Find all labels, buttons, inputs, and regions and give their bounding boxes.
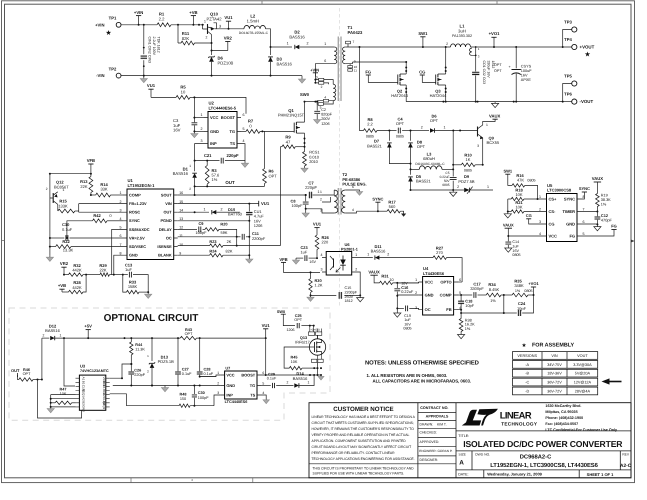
svg-text:FOR ASSEMBLY: FOR ASSEMBLY xyxy=(532,343,575,349)
svg-text:TIMER: TIMER xyxy=(563,209,576,214)
svg-text:1: 1 xyxy=(486,123,488,127)
svg-text:1%: 1% xyxy=(601,202,607,206)
svg-text:-B: -B xyxy=(525,372,529,376)
svg-text:C26: C26 xyxy=(134,368,141,372)
svg-text:NOTES: UNLESS OTHERWISE SPECI: NOTES: UNLESS OTHERWISE SPECIFIED xyxy=(365,359,479,366)
svg-text:3uH: 3uH xyxy=(458,28,466,33)
size/dwg/rev row dividers xyxy=(472,451,620,478)
svg-text:2: 2 xyxy=(46,187,48,191)
svg-text:Fax: (408)434-0507: Fax: (408)434-0507 xyxy=(545,422,578,426)
svg-text:VU1: VU1 xyxy=(147,83,156,88)
svg-text:R31: R31 xyxy=(381,274,389,279)
T1 secondary winding (pin 7) xyxy=(343,47,346,64)
svg-text:820pF: 820pF xyxy=(321,113,332,117)
svg-text:BAS521: BAS521 xyxy=(367,143,382,148)
ground at C8 xyxy=(305,211,307,213)
wire U4 FB row xyxy=(457,310,504,313)
svg-text:100pF: 100pF xyxy=(198,396,209,400)
title block right rows xyxy=(456,431,631,470)
svg-text:2.2: 2.2 xyxy=(367,122,373,127)
diode D7 BAS521 xyxy=(388,131,390,141)
svg-text:APPROVALS: APPROVALS xyxy=(426,415,449,419)
svg-text:4: 4 xyxy=(321,253,323,257)
svg-text:47K: 47K xyxy=(517,178,524,183)
net flag VU1 at VIN xyxy=(258,201,260,207)
svg-text:SIZE: SIZE xyxy=(459,452,467,456)
svg-text:11: 11 xyxy=(179,234,183,238)
op-amp U2 LTC4440ES6-5 box xyxy=(208,112,237,149)
svg-text:28V@4A: 28V@4A xyxy=(575,389,591,393)
wire U7 VCC row xyxy=(200,375,221,377)
test point TP4 (+VOUT) xyxy=(572,44,577,49)
svg-text:0.1uF: 0.1uF xyxy=(182,372,192,376)
svg-text:BOOST: BOOST xyxy=(241,372,255,377)
svg-text:TDK 1812: TDK 1812 xyxy=(157,37,161,53)
ground (open) at R21 xyxy=(507,212,509,214)
svg-text:BLANK: BLANK xyxy=(158,253,172,258)
svg-text:OPT: OPT xyxy=(294,318,302,322)
svg-text:SYNC: SYNC xyxy=(129,218,140,223)
resistor R6 OPT xyxy=(263,169,267,184)
svg-text:1: 1 xyxy=(355,253,357,257)
svg-text:158K: 158K xyxy=(128,284,138,289)
secondary controller U5 LTC3900CS8 box xyxy=(547,194,578,242)
gate driver U7 LTC4440ES6 box xyxy=(225,371,257,399)
svg-text:5V@20A: 5V@20A xyxy=(575,372,591,376)
svg-text:2: 2 xyxy=(189,187,191,191)
wire R1 to Q10 node xyxy=(171,24,204,26)
isolation barrier dashed line xyxy=(339,8,341,308)
wire T1 gnd column to T2 xyxy=(359,130,361,132)
ground at T2 secondary top xyxy=(357,190,360,192)
resistor R3 57.6 1% xyxy=(205,166,209,185)
ground (open) at C16 xyxy=(394,313,401,317)
svg-text:THIS CIRCUIT IS PROPRIETARY TO: THIS CIRCUIT IS PROPRIETARY TO LINEAR TE… xyxy=(313,466,415,470)
capacitor C3 1uF 16V xyxy=(193,97,195,122)
svg-text:ISENSE: ISENSE xyxy=(157,244,172,249)
svg-text:220: 220 xyxy=(322,240,329,245)
svg-text:2: 2 xyxy=(321,85,323,89)
wire VU1 column down to BOOST xyxy=(265,338,267,375)
svg-text:FG: FG xyxy=(611,224,617,229)
test point TP3 xyxy=(572,27,577,32)
svg-text:2: 2 xyxy=(120,200,122,204)
svg-text:VOUT: VOUT xyxy=(577,354,588,358)
svg-text:4: 4 xyxy=(539,232,541,236)
svg-text:CSYS: CSYS xyxy=(521,65,532,69)
svg-text:OPT: OPT xyxy=(396,121,405,126)
svg-text:4: 4 xyxy=(243,139,245,143)
svg-text:1: 1 xyxy=(324,42,326,46)
svg-text:CUSTOMER NOTICE: CUSTOMER NOTICE xyxy=(333,406,393,413)
svg-text:10K: 10K xyxy=(515,192,522,197)
wire T1 top node down to R8 xyxy=(360,47,364,131)
svg-text:CO1 CO2 CO3: CO1 CO2 CO3 xyxy=(482,61,486,85)
capacitor C27 0.1uF xyxy=(177,338,179,371)
svg-text:SUPPLIED FOR USE WITH LINEAR T: SUPPLIED FOR USE WITH LINEAR TECHNOLOGY … xyxy=(313,472,405,476)
svg-text:3: 3 xyxy=(316,75,318,79)
svg-text:+5V: +5V xyxy=(84,324,92,329)
svg-text:3: 3 xyxy=(219,24,221,28)
wire VU1 node to BOOST xyxy=(194,97,246,113)
svg-text:SYNC: SYNC xyxy=(564,197,575,202)
svg-text:GND: GND xyxy=(210,129,219,134)
svg-text:VU1: VU1 xyxy=(261,201,270,206)
svg-text:R48: R48 xyxy=(180,393,187,397)
svg-text:U6: U6 xyxy=(345,242,351,247)
svg-text:TP1: TP1 xyxy=(109,16,117,21)
resistor R26 220 xyxy=(315,235,319,250)
ground (open) at C5/D9 row xyxy=(452,190,454,192)
svg-text:CG: CG xyxy=(419,69,425,74)
svg-text:OC: OC xyxy=(425,307,431,312)
svg-text:OPT: OPT xyxy=(185,332,193,336)
svg-text:22K: 22K xyxy=(80,184,87,189)
svg-text:R45: R45 xyxy=(291,356,298,360)
svg-text:13.3K: 13.3K xyxy=(63,248,74,253)
svg-text:10K: 10K xyxy=(60,392,67,396)
svg-text:SD/VSEC: SD/VSEC xyxy=(129,244,146,249)
svg-text:100pF: 100pF xyxy=(291,203,303,208)
resistor R21 10K xyxy=(511,210,524,213)
svg-text:+VO1: +VO1 xyxy=(489,31,500,36)
svg-text:0805: 0805 xyxy=(524,289,532,293)
svg-text:LTC3900CS8: LTC3900CS8 xyxy=(547,188,572,193)
svg-text:PGND: PGND xyxy=(160,218,171,223)
resistor R33 158K xyxy=(123,275,127,293)
svg-text:VR2: VR2 xyxy=(60,261,69,266)
wire U2 VCC xyxy=(194,117,204,119)
svg-text:100uF: 100uF xyxy=(521,69,532,73)
svg-text:FG: FG xyxy=(569,234,575,239)
svg-text:10: 10 xyxy=(179,243,183,247)
svg-text:+VOUT: +VOUT xyxy=(580,45,595,50)
T1 primary bottom leads with pads xyxy=(317,101,333,104)
svg-text:8: 8 xyxy=(120,251,122,255)
svg-text:CG: CG xyxy=(526,213,532,218)
svg-text:APPROVED:: APPROVED: xyxy=(420,440,440,444)
ground at CU1/C11/R24 column xyxy=(248,255,250,259)
svg-text:BAS521: BAS521 xyxy=(416,179,431,184)
svg-text:PZTA42: PZTA42 xyxy=(206,16,222,21)
wire U3 bottom return xyxy=(38,380,82,419)
svg-text:6: 6 xyxy=(324,59,326,63)
svg-text:C15: C15 xyxy=(345,286,352,290)
svg-text:CHECKED:: CHECKED: xyxy=(420,431,438,435)
svg-text:CS+: CS+ xyxy=(549,197,558,202)
svg-text:82K: 82K xyxy=(226,249,233,254)
svg-text:4: 4 xyxy=(352,208,354,212)
svg-text:3: 3 xyxy=(477,144,479,148)
wire OC pin11 xyxy=(178,236,237,238)
junction dot Q10 collector node xyxy=(211,42,213,44)
resistor R46 OPT xyxy=(19,378,33,381)
customer notice separator xyxy=(309,463,418,465)
svg-text:APXE: APXE xyxy=(521,78,532,82)
svg-text:-VIN: -VIN xyxy=(96,73,104,78)
svg-text:OPT: OPT xyxy=(494,69,502,73)
svg-text:R23: R23 xyxy=(209,239,217,244)
svg-text:10K: 10K xyxy=(515,205,522,210)
svg-text:TP3: TP3 xyxy=(564,20,572,25)
svg-text:16V: 16V xyxy=(521,74,528,78)
svg-text:GND: GND xyxy=(425,293,434,298)
L1 aux winding xyxy=(470,48,472,55)
svg-text:7: 7 xyxy=(583,208,585,212)
U2 pin stubs and numbers xyxy=(204,118,241,144)
svg-text:0805: 0805 xyxy=(512,253,520,257)
svg-text:0805: 0805 xyxy=(403,327,411,331)
svg-text:+VO1: +VO1 xyxy=(528,281,539,286)
wire GND row optional xyxy=(113,385,221,387)
svg-text:PS2801-1: PS2801-1 xyxy=(341,247,358,251)
svg-text:VCC: VCC xyxy=(549,234,558,239)
svg-text:6: 6 xyxy=(243,113,245,117)
resistor R13 22K xyxy=(89,177,93,193)
svg-text:+D+G-D: +D+G-D xyxy=(310,329,320,332)
svg-text:VU1: VU1 xyxy=(262,323,271,328)
ground at C23 xyxy=(295,258,297,260)
svg-text:1: 1 xyxy=(287,42,289,46)
resistor R22 13.3K xyxy=(56,245,71,249)
svg-text:2: 2 xyxy=(307,42,309,46)
Q13 pad header xyxy=(308,332,314,335)
svg-text:VU1: VU1 xyxy=(224,15,233,20)
svg-text:2: 2 xyxy=(217,382,219,386)
svg-text:TITLE:: TITLE: xyxy=(458,434,469,438)
svg-text:5: 5 xyxy=(120,226,122,230)
svg-text:VFB: VFB xyxy=(87,158,95,163)
title block column dividers xyxy=(418,403,456,478)
svg-text:BCX55: BCX55 xyxy=(487,140,500,145)
svg-text:4: 4 xyxy=(262,391,264,395)
resistor R14 33K xyxy=(96,193,111,197)
wire U6 pin2 to C15 node xyxy=(356,272,360,295)
capacitor C16 0.22uF 10V xyxy=(396,283,398,288)
junction dots on -VIN rail xyxy=(143,75,145,77)
svg-text:12: 12 xyxy=(179,226,183,230)
resistor R44 11.3K xyxy=(130,338,132,342)
wire U2 INP down xyxy=(195,144,204,161)
svg-text:1uF: 1uF xyxy=(125,267,132,272)
optocoupler U6 PS2801-1 box xyxy=(326,252,352,276)
wire PGND pin13 xyxy=(178,220,250,222)
svg-text:C2: C2 xyxy=(321,108,326,112)
resistor R5 10 xyxy=(151,96,176,98)
svg-text:KIM T.: KIM T. xyxy=(437,423,447,427)
wire secondary bottom rail xyxy=(406,101,563,103)
resistor R18 10K xyxy=(511,197,524,200)
svg-text:2: 2 xyxy=(457,185,459,189)
resistor R31 10 xyxy=(380,281,393,284)
svg-text:LT4430ES6: LT4430ES6 xyxy=(423,271,445,276)
capacitor C26 220pF xyxy=(128,372,134,374)
wire Q10 emitter rail to L2 xyxy=(214,23,245,29)
capacitor C4 OPT 0805 xyxy=(398,128,400,134)
wire SOUT pin16 row to C7 xyxy=(178,194,306,196)
svg-text:6: 6 xyxy=(120,234,122,238)
resistor R19 38.3K 1% xyxy=(596,194,600,207)
ground at C21/TS xyxy=(244,161,246,164)
svg-text:4: 4 xyxy=(120,217,122,221)
svg-text:5: 5 xyxy=(243,127,245,131)
svg-text:OPT: OPT xyxy=(269,173,278,178)
resistor R8 2.2 0805 xyxy=(364,129,378,133)
svg-text:FB=1.23V: FB=1.23V xyxy=(129,201,147,206)
svg-text:1%: 1% xyxy=(490,299,496,303)
svg-text:4: 4 xyxy=(324,95,326,99)
capacitor C11 2200pF xyxy=(237,236,241,238)
svg-text:2.2uF 100V: 2.2uF 100V xyxy=(152,37,156,56)
svg-text:PA1393.302: PA1393.302 xyxy=(452,34,472,38)
diode D5 BAS521 xyxy=(410,169,412,174)
junction dots R29 row xyxy=(113,274,115,276)
svg-text:C9: C9 xyxy=(199,221,205,226)
svg-text:-C: -C xyxy=(525,381,529,385)
svg-text:CIRCUIT THAT MEETS CUSTOMER-SU: CIRCUIT THAT MEETS CUSTOMER-SUPPLIED SPE… xyxy=(312,421,414,425)
resistor R20 59K xyxy=(205,228,219,231)
svg-text:330uF 16V: 330uF 16V xyxy=(486,61,490,79)
svg-text:★: ★ xyxy=(105,29,111,37)
svg-text:0805: 0805 xyxy=(464,169,472,173)
resistor R34 8.45K 1% xyxy=(486,293,501,297)
ground at R47 column xyxy=(50,407,52,409)
svg-text:100pF: 100pF xyxy=(195,230,207,235)
U5 pins and labels xyxy=(543,198,582,200)
svg-text:442K: 442K xyxy=(72,285,82,290)
svg-text:1uF: 1uF xyxy=(512,244,519,248)
svg-text:A2-C: A2-C xyxy=(620,463,632,469)
svg-text:SW0: SW0 xyxy=(300,92,310,97)
svg-text:ROSC: ROSC xyxy=(129,210,140,215)
svg-text:1: 1 xyxy=(60,333,62,337)
svg-text:1: 1 xyxy=(308,381,310,385)
diode D2 BAS516 xyxy=(271,46,293,48)
svg-text:1.5mH: 1.5mH xyxy=(247,18,259,23)
resistor R7 0 xyxy=(241,130,246,132)
svg-text:HOWEVER, IT REMAINS THE CUSTOM: HOWEVER, IT REMAINS THE CUSTOMER'S RESPO… xyxy=(312,427,415,431)
wire U1 GND pin 8 xyxy=(114,255,123,274)
capacitor C21 220pF xyxy=(195,160,220,162)
svg-text:9: 9 xyxy=(179,251,181,255)
wire U7 BOOST row xyxy=(261,374,321,376)
svg-text:VU1: VU1 xyxy=(313,222,322,227)
svg-text:1: 1 xyxy=(120,191,122,195)
svg-text:3: 3 xyxy=(539,220,541,224)
svg-text:TG: TG xyxy=(250,383,255,388)
resistor R10 1K 0805 xyxy=(453,164,461,166)
svg-text:GND: GND xyxy=(82,405,86,413)
svg-text:CONTRACT NO.: CONTRACT NO. xyxy=(420,406,448,410)
resistor R38 16.2K 1% xyxy=(460,313,462,319)
svg-text:2: 2 xyxy=(221,207,223,211)
zener D6 PDZ10B xyxy=(211,43,213,55)
wire SS/MAXDC pin 5 xyxy=(112,229,123,274)
svg-text:2.2: 2.2 xyxy=(159,17,165,22)
svg-text:560: 560 xyxy=(389,204,396,209)
svg-text:U7: U7 xyxy=(225,366,230,370)
svg-text:3: 3 xyxy=(415,306,417,310)
svg-text:+VIN: +VIN xyxy=(310,67,319,72)
svg-text:SS/MAXDC: SS/MAXDC xyxy=(129,227,150,232)
svg-text:VCC: VCC xyxy=(226,372,234,377)
svg-text:1: 1 xyxy=(415,278,417,282)
svg-text:1: 1 xyxy=(189,164,191,168)
wire SW0 rail xyxy=(305,101,316,103)
svg-text:DC968A2-C: DC968A2-C xyxy=(520,454,552,461)
svg-text:SW1: SW1 xyxy=(503,169,512,174)
svg-text:7: 7 xyxy=(353,40,355,44)
svg-text:C30: C30 xyxy=(198,391,205,395)
svg-text:2: 2 xyxy=(421,126,423,130)
svg-text:Q13: Q13 xyxy=(300,336,307,340)
T1 primary winding coil xyxy=(333,84,336,101)
svg-text:CIRUIT BOARD LAYOUT MAY SIGNIF: CIRUIT BOARD LAYOUT MAY SIGNIFICANTLY AF… xyxy=(312,445,412,449)
capacitor C2 820pF 200V 1206 xyxy=(316,102,318,111)
svg-text:ISOLATED DC/DC POWER CONVERTER: ISOLATED DC/DC POWER CONVERTER xyxy=(463,439,623,449)
svg-text:BAS516: BAS516 xyxy=(45,328,60,333)
T2 primary leads xyxy=(322,190,334,213)
Linear Technology LT logo mark xyxy=(462,409,498,426)
svg-text:TECHNOLOGY APPLICATIONS ENGINE: TECHNOLOGY APPLICATIONS ENGINEERING FOR … xyxy=(312,457,415,461)
capacitor C15 2200pF 250V 1812 xyxy=(311,294,337,296)
svg-text:VR=2.5V: VR=2.5V xyxy=(129,235,145,240)
resistor R24 82K xyxy=(178,254,210,256)
svg-text:GND: GND xyxy=(226,383,235,388)
svg-text:OPTO: OPTO xyxy=(440,280,451,285)
svg-text:PDZ5.1B: PDZ5.1B xyxy=(158,359,175,364)
svg-text:1: 1 xyxy=(539,195,541,199)
svg-text:9: 9 xyxy=(354,60,356,64)
svg-text:1: 1 xyxy=(444,126,446,130)
svg-text:R19: R19 xyxy=(601,194,608,198)
svg-text:VAUX: VAUX xyxy=(368,269,380,274)
wire Q1 drain to SW0 xyxy=(304,102,306,123)
capacitor C17 3300pF xyxy=(457,294,461,296)
svg-text:VERSIONS: VERSIONS xyxy=(517,354,537,358)
capacitor CSYS 100uF 16V APXE xyxy=(515,47,517,68)
wire OUT row xyxy=(195,185,265,187)
resistor R45 10K xyxy=(289,366,302,369)
svg-text:47: 47 xyxy=(286,139,291,144)
test point TP6 (-VOUT) xyxy=(572,99,577,104)
wire secondary rail A xyxy=(360,46,451,48)
svg-text:APPLICATION. COMPONENT SUBSTIT: APPLICATION. COMPONENT SUBSTITUTION AND … xyxy=(312,439,407,443)
svg-text:Phone: (408)432-1900: Phone: (408)432-1900 xyxy=(545,416,583,420)
svg-text:1. ALL RESISTORS ARE IN OHMS,: 1. ALL RESISTORS ARE IN OHMS, 0603. xyxy=(367,373,448,378)
arrow pointing to -C row xyxy=(608,381,622,383)
svg-text:LT1952EGN-1: LT1952EGN-1 xyxy=(128,183,156,188)
svg-text:R20: R20 xyxy=(220,221,227,226)
svg-text:-D: -D xyxy=(525,389,529,393)
resistor R35 348K 1% 0805 xyxy=(512,293,528,297)
svg-text:220pF: 220pF xyxy=(227,153,240,158)
wire Q9 emitter column xyxy=(482,142,484,165)
svg-text:CIN1 CIN2 CIN3: CIN1 CIN2 CIN3 xyxy=(148,37,152,64)
wire Q13 gate xyxy=(284,347,309,368)
svg-text:2K: 2K xyxy=(227,239,232,244)
svg-text:2: 2 xyxy=(201,127,203,131)
svg-text:1206: 1206 xyxy=(287,328,295,332)
svg-text:18V-36V: 18V-36V xyxy=(547,372,562,376)
svg-text:DRAWN:: DRAWN: xyxy=(420,423,434,427)
U6 internal phototransistor xyxy=(333,259,335,268)
svg-text:34V-75V: 34V-75V xyxy=(547,363,562,367)
svg-text:DWG NO.: DWG NO. xyxy=(475,452,490,456)
svg-text:DO1607B-155ML-C: DO1607B-155ML-C xyxy=(239,31,269,35)
svg-text:3: 3 xyxy=(320,209,322,213)
wire VFB node row xyxy=(50,173,91,175)
